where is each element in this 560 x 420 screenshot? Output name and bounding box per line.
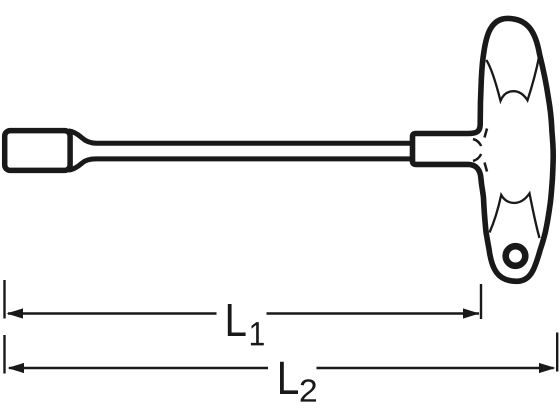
dimension L2 label subscript 2 xyxy=(301,379,316,401)
taper shaft bottom edge xyxy=(69,159,412,170)
dimension L2 left arrowhead xyxy=(8,363,25,373)
dimension L1 right extension tick xyxy=(480,284,482,319)
dimension L2 line left segment xyxy=(9,367,268,370)
dimension L1 line right segment xyxy=(267,312,480,315)
dimension L1 line left segment xyxy=(8,312,217,315)
dimension L2 label letter L xyxy=(280,362,298,394)
lower grip contour lines xyxy=(490,193,540,238)
handle hanging hole ring xyxy=(506,246,526,266)
dimension L1 label letter L xyxy=(228,304,246,336)
dimension L1 right arrowhead xyxy=(463,308,480,318)
collar bottom dash detail xyxy=(485,163,488,172)
socket head xyxy=(5,131,70,171)
collar bottom fillet arc detail xyxy=(473,154,481,161)
collar top fillet arc detail xyxy=(473,139,481,146)
dimension L1 left extension tick xyxy=(3,280,5,319)
taper shaft top edge xyxy=(69,131,412,143)
dimension L2 right arrowhead xyxy=(539,363,556,373)
T-handle with collar outline xyxy=(413,18,554,281)
collar top dash detail xyxy=(485,129,488,138)
dimension L1 label subscript 1 xyxy=(251,322,264,345)
dimension L2 left extension tick xyxy=(3,335,5,374)
upper grip contour lines xyxy=(486,57,539,101)
dimension L1 left arrowhead xyxy=(7,308,24,318)
dimension L2 right extension tick xyxy=(556,333,558,372)
dimension L2 line right segment xyxy=(317,367,554,370)
